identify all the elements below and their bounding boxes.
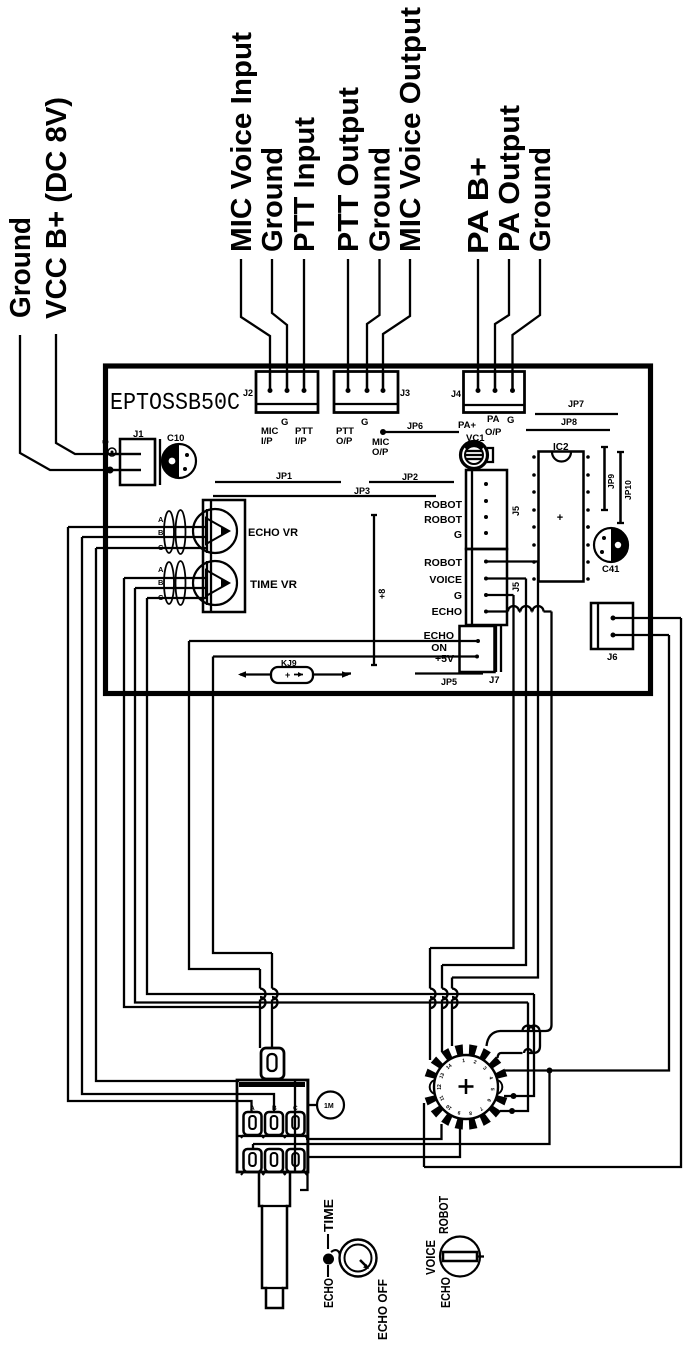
potentiometer bracket xyxy=(203,500,245,612)
svg-text:ECHO: ECHO xyxy=(438,1277,453,1308)
connector J5 upper xyxy=(466,470,507,549)
svg-text:VOICE: VOICE xyxy=(423,1240,438,1275)
svg-text:C: C xyxy=(293,1105,298,1112)
svg-text:ECHO: ECHO xyxy=(432,606,462,618)
wire ptt ground to J3 pin 2 xyxy=(365,259,380,393)
svg-text:J5: J5 xyxy=(511,582,521,592)
rotary switch lugs xyxy=(425,1044,508,1129)
wire ECHO VR A xyxy=(68,527,252,1113)
pot lug C2 xyxy=(284,1149,307,1175)
wire TIME C column down right xyxy=(504,994,534,1099)
connector J1 xyxy=(120,429,160,485)
trimmer capacitor VC1 xyxy=(461,433,494,469)
svg-text:B: B xyxy=(158,578,164,587)
J4 PA O/P label xyxy=(485,414,502,438)
J2 G label xyxy=(281,417,288,428)
label Ground (PA) xyxy=(525,147,557,252)
pot lug C xyxy=(284,1112,307,1138)
ECHO VR label xyxy=(248,527,298,539)
svg-text:J2: J2 xyxy=(243,388,253,398)
icon VOICE/ROBOT labels xyxy=(423,1196,453,1308)
svg-text:G: G xyxy=(507,415,514,426)
wire PA ground to J4 pin 3 xyxy=(510,259,540,393)
svg-text:TIME: TIME xyxy=(321,1199,336,1232)
svg-text:J6: J6 xyxy=(607,652,618,663)
jumper JP1 xyxy=(215,471,341,482)
svg-text:PA: PA xyxy=(487,414,500,425)
wire ground lead to J1 xyxy=(20,335,141,470)
pot lug B2 xyxy=(263,1149,286,1175)
J2 PTT I/P label xyxy=(295,426,313,447)
drop from rotary feed to pot row xyxy=(253,1071,550,1151)
link KJ9 xyxy=(238,658,350,683)
svg-text:J5: J5 xyxy=(511,506,521,516)
wire G pin to column xyxy=(484,593,514,597)
wire MIC voice input to J2 pin 1 xyxy=(241,259,273,393)
wire ECHO pin with crossover hops xyxy=(484,606,552,614)
label VCC B+ (DC 8V) xyxy=(41,97,73,319)
svg-text:TIME VR: TIME VR xyxy=(250,579,297,591)
label PA Output xyxy=(494,105,526,252)
ECHO VR terminal labels A B C xyxy=(158,515,164,552)
svg-text:+: + xyxy=(285,670,290,680)
pot lug labels xyxy=(250,1105,298,1112)
jumper JP2 xyxy=(369,472,454,482)
wire PA B+ to J4 pin 1 xyxy=(476,259,481,393)
svg-text:12: 12 xyxy=(437,1084,443,1090)
wire PTT input to J2 pin 3 xyxy=(302,259,307,393)
svg-text:PA B+: PA B+ xyxy=(463,157,495,254)
svg-text:PA Output: PA Output xyxy=(494,105,526,252)
pot shaft xyxy=(259,1172,290,1308)
J4 pin stubs xyxy=(478,371,513,390)
J5 upper pin dots xyxy=(484,482,488,535)
J5 designator rotated xyxy=(511,506,521,516)
svg-text:O/P: O/P xyxy=(336,436,353,447)
svg-text:PTT Output: PTT Output xyxy=(333,87,365,252)
wire +5V from J7 xyxy=(213,655,479,659)
icon knob pointer line xyxy=(323,1234,340,1277)
svg-text:J4: J4 xyxy=(451,389,461,399)
label Ground (ptt) xyxy=(365,147,397,252)
J5 lower labels ROBOT VOICE G ECHO xyxy=(424,557,463,618)
svg-text:JP9: JP9 xyxy=(606,474,616,489)
capacitor C10 xyxy=(162,433,196,478)
svg-text:I/P: I/P xyxy=(261,436,273,447)
branch from x=540 to lug xyxy=(498,1031,541,1058)
pot lug A2 xyxy=(241,1149,264,1175)
wire ECHO column to rotary xyxy=(487,612,552,1047)
label Ground (VCC ground) xyxy=(5,217,37,318)
svg-text:1M: 1M xyxy=(324,1103,334,1110)
svg-text:JP7: JP7 xyxy=(568,399,584,409)
J6 pin 1 wire to right rail xyxy=(611,616,682,621)
svg-text:A: A xyxy=(158,565,164,574)
label PA B+ xyxy=(463,157,495,254)
svg-text:ECHO OFF: ECHO OFF xyxy=(375,1279,390,1340)
J3 G label xyxy=(361,417,368,428)
svg-text:JP10: JP10 xyxy=(623,480,633,500)
rail from J6 pin1 down right edge xyxy=(424,618,681,1167)
potentiometer TIME VR xyxy=(193,561,237,605)
link pot edge to rotary lug (upper) xyxy=(306,1124,442,1139)
svg-text:O/P: O/P xyxy=(485,427,502,438)
J3 pin stubs xyxy=(348,371,383,390)
svg-text:Ground: Ground xyxy=(257,147,289,252)
svg-text:ROBOT: ROBOT xyxy=(424,499,463,511)
svg-text:JP6: JP6 xyxy=(407,421,423,431)
J5 lower designator rotated xyxy=(511,582,521,592)
label MIC Voice Output xyxy=(395,7,427,252)
svg-text:O/P: O/P xyxy=(372,447,389,458)
J2 pin stubs xyxy=(270,371,304,390)
svg-text:C41: C41 xyxy=(602,564,620,575)
svg-text:J7: J7 xyxy=(489,675,500,686)
pot switch node circle xyxy=(308,1092,344,1119)
TIME VR terminal labels A B C xyxy=(158,565,164,602)
svg-text:EPTOSSB50C: EPTOSSB50C xyxy=(110,390,240,417)
wire TIME VR A xyxy=(124,578,260,1007)
rotary switch position numbers xyxy=(437,1058,495,1116)
jumper JP3 xyxy=(213,486,436,496)
jumper JP9 xyxy=(601,447,616,510)
J3 PTT O/P label xyxy=(336,426,354,447)
svg-text:JP5: JP5 xyxy=(441,677,457,687)
svg-text:+8: +8 xyxy=(377,589,387,599)
wire TIME VR C xyxy=(147,598,534,994)
svg-text:G: G xyxy=(361,417,368,428)
connector J6 xyxy=(591,603,633,663)
svg-text:JP3: JP3 xyxy=(354,486,370,496)
wire ROBOT pin to column xyxy=(484,560,538,564)
board title EPTOSSB50C xyxy=(110,390,240,417)
label MIC Voice Input xyxy=(226,32,258,252)
IC U2 (IC2) xyxy=(539,442,584,582)
svg-text:C10: C10 xyxy=(167,433,184,444)
wire ECHO-ON down to pot lug xyxy=(189,641,266,1048)
wire ECHO-ON from J7 xyxy=(189,639,480,643)
J1 pin 1 wire xyxy=(104,453,141,455)
jumper JP8 xyxy=(526,417,610,430)
label PTT Input xyxy=(289,117,321,252)
wire ECHO VR B xyxy=(82,537,274,1113)
wire VOICE pin to column xyxy=(484,577,526,581)
hops on echo feed line xyxy=(523,1026,540,1032)
svg-text:MIC Voice Input: MIC Voice Input xyxy=(226,32,258,252)
pot lug A xyxy=(241,1112,264,1138)
svg-text:G: G xyxy=(281,417,288,428)
connector J5 lower xyxy=(466,549,507,625)
wire VCC lead to J1 xyxy=(56,334,141,454)
svg-text:JP1: JP1 xyxy=(276,471,292,481)
jumper JP6 xyxy=(380,421,459,435)
svg-text:MIC Voice Output: MIC Voice Output xyxy=(395,7,427,252)
svg-text:ROBOT: ROBOT xyxy=(436,1196,451,1234)
svg-text:G: G xyxy=(454,529,462,541)
J3 MIC O/P label xyxy=(372,437,390,458)
TIME VR crimp terminals xyxy=(164,561,186,605)
svg-text:B: B xyxy=(272,1105,277,1112)
svg-text:+: + xyxy=(557,512,563,524)
svg-text:A: A xyxy=(158,515,164,524)
svg-text:J3: J3 xyxy=(400,388,410,398)
svg-text:ROBOT: ROBOT xyxy=(424,514,463,526)
svg-text:PTT Input: PTT Input xyxy=(289,117,321,252)
ECHO VR crimp terminals xyxy=(164,510,186,554)
connector J3 xyxy=(334,372,410,413)
wire TIME VR B xyxy=(135,588,528,1003)
wire MIC voice output to J3 pin 3 xyxy=(381,259,411,393)
jumper JP5 xyxy=(344,674,483,688)
label PTT Output xyxy=(333,87,365,252)
pot lug B xyxy=(263,1112,286,1138)
svg-text:VOICE: VOICE xyxy=(429,574,462,586)
J4 PA+ label xyxy=(458,420,476,431)
svg-text:+5V: +5V xyxy=(435,653,454,665)
wire VOICE column to rotary xyxy=(442,579,526,1053)
IC2 pin dots xyxy=(532,455,590,581)
svg-text:ECHO VR: ECHO VR xyxy=(248,527,298,539)
PCB board outline EPTOSSB50C xyxy=(106,366,651,694)
J5 upper labels ROBOT ROBOT G xyxy=(424,499,463,541)
wire PA output to J4 pin 2 xyxy=(493,259,510,393)
svg-text:5: 5 xyxy=(102,439,111,444)
icon knob circle xyxy=(340,1240,377,1277)
wire ROBOT column to rotary xyxy=(452,562,538,1047)
svg-text:Ground: Ground xyxy=(525,147,557,252)
svg-text:VCC B+ (DC 8V): VCC B+ (DC 8V) xyxy=(41,97,73,319)
J1 polarity mark xyxy=(102,439,117,456)
svg-text:Ground: Ground xyxy=(5,217,37,318)
svg-text:ROBOT: ROBOT xyxy=(424,557,463,569)
net +8 vertical xyxy=(371,515,387,665)
wire ECHO VR C xyxy=(96,548,239,1081)
svg-text:A: A xyxy=(250,1105,255,1112)
label Ground (mic) xyxy=(257,147,289,252)
pot assembly body xyxy=(237,1080,308,1190)
svg-text:ECHO: ECHO xyxy=(321,1278,336,1308)
jumper JP7 xyxy=(535,399,618,414)
capacitor C41 xyxy=(586,525,628,575)
link pot lug C to rotary lug (lower) xyxy=(308,1129,460,1157)
connector J4 xyxy=(451,372,525,413)
J4 G label xyxy=(507,415,514,426)
wire +5V down to pot lug xyxy=(213,657,278,1049)
J1 pin 2 wire xyxy=(104,467,141,474)
wire G column to rotary xyxy=(430,595,514,1060)
wire TIME B column down right xyxy=(500,1003,528,1115)
jumper JP10 xyxy=(617,452,633,523)
potentiometer ECHO VR xyxy=(193,509,237,553)
J7 labels ECHO ON +5V xyxy=(424,630,454,665)
icon ECHO OFF label xyxy=(375,1279,390,1340)
svg-text:JP2: JP2 xyxy=(402,472,418,482)
svg-text:B: B xyxy=(158,528,164,537)
TIME VR label xyxy=(250,579,297,591)
icon selector circle with slot xyxy=(440,1237,484,1277)
J2 MIC I/P label xyxy=(261,426,279,447)
svg-text:PA+: PA+ xyxy=(458,420,476,431)
rotary switch body xyxy=(430,1055,503,1119)
J6 pin 2 wire to right rail xyxy=(611,633,670,638)
svg-text:IC2: IC2 xyxy=(553,442,569,453)
connector J2 xyxy=(243,372,318,413)
wire mic ground to J2 pin 2 xyxy=(272,259,290,393)
icon ECHO/TIME knob labels xyxy=(321,1199,336,1308)
svg-text:I/P: I/P xyxy=(295,436,307,447)
svg-text:G: G xyxy=(454,590,462,602)
wire PTT output to J3 pin 1 xyxy=(346,259,351,393)
svg-text:JP8: JP8 xyxy=(561,417,577,427)
rail from J6 pin2 down to rotary feed xyxy=(505,635,669,1074)
svg-text:Ground: Ground xyxy=(365,147,397,252)
pot top solder lug xyxy=(261,1048,284,1079)
svg-text:J1: J1 xyxy=(133,429,144,440)
connector J7 xyxy=(460,626,502,686)
